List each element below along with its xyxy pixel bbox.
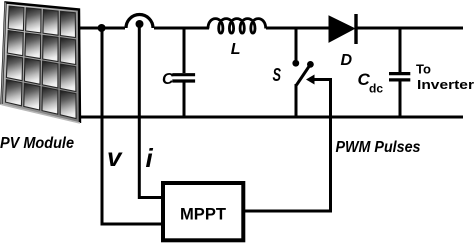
wire PWM from MPPT to switch bbox=[245, 80, 331, 212]
switch S blade contact dot bbox=[307, 61, 314, 68]
node junction v-tap bbox=[98, 24, 106, 32]
switch S lower leg bbox=[295, 84, 298, 117]
inductor L bbox=[208, 19, 266, 34]
svg-text:PV Module: PV Module bbox=[0, 135, 74, 152]
svg-text:i: i bbox=[146, 143, 154, 173]
PV module panel bbox=[2, 3, 81, 124]
label Cdc bbox=[358, 70, 384, 96]
svg-text:D: D bbox=[341, 52, 353, 69]
wire bottom bus bbox=[79, 116, 463, 119]
MPPT box bbox=[163, 183, 243, 240]
capacitor C bbox=[172, 28, 195, 117]
wire top bus left bbox=[78, 27, 125, 30]
switch S upper leg bbox=[295, 28, 298, 60]
wire top bus mid1 bbox=[154, 27, 209, 30]
svg-text:C: C bbox=[162, 71, 174, 88]
label To Inverter bbox=[416, 62, 474, 93]
svg-text:Inverter: Inverter bbox=[417, 77, 474, 92]
arrowhead PWM bbox=[306, 75, 315, 85]
svg-text:dc: dc bbox=[369, 82, 383, 96]
wire i sense bbox=[139, 24, 163, 198]
svg-text:MPPT: MPPT bbox=[180, 205, 227, 224]
node current tap dot bbox=[136, 20, 144, 28]
wire top bus right bbox=[356, 27, 463, 30]
svg-text:L: L bbox=[231, 41, 241, 58]
diode D bbox=[329, 14, 356, 44]
svg-text:PWM Pulses: PWM Pulses bbox=[336, 139, 421, 156]
svg-text:v: v bbox=[107, 142, 123, 172]
wire v sense bbox=[102, 28, 163, 224]
capacitor Cdc bbox=[389, 28, 410, 117]
current sensor hump bbox=[126, 14, 153, 28]
svg-text:S: S bbox=[273, 65, 282, 85]
svg-text:To: To bbox=[416, 62, 431, 77]
wire top bus mid2 bbox=[266, 27, 331, 30]
switch S upper contact dot bbox=[292, 60, 299, 67]
switch S blade bbox=[297, 64, 311, 85]
